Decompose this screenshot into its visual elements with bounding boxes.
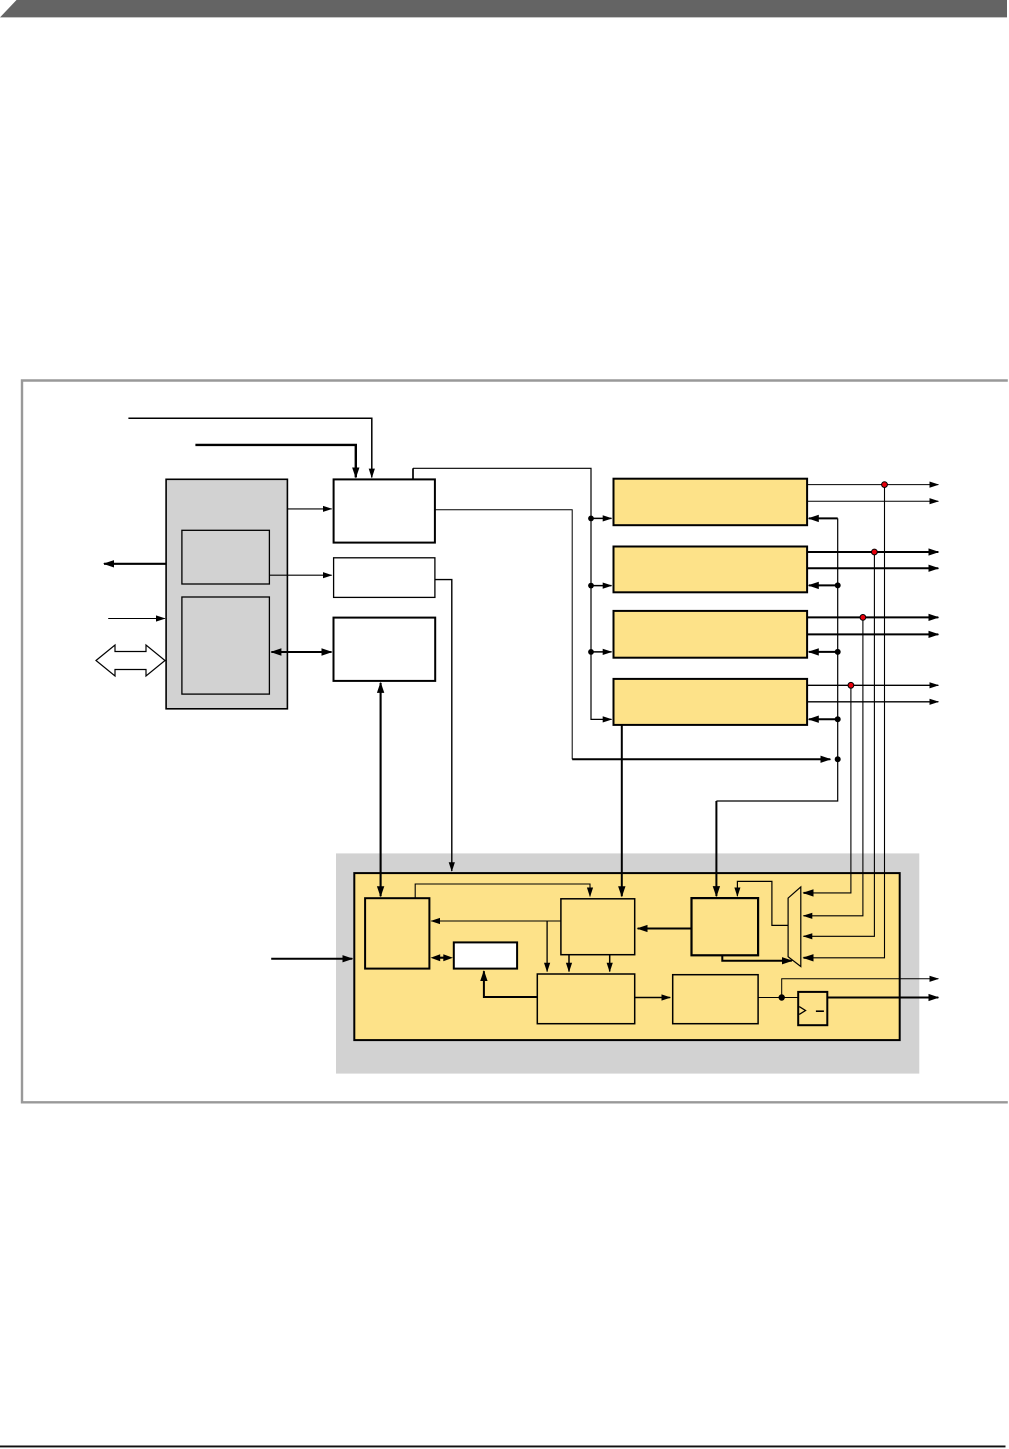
node: module2 pin <box>872 549 878 555</box>
block: toggle flip-flop <box>798 992 827 1025</box>
wire: compare to counter feedback <box>431 920 561 922</box>
junction <box>835 716 841 722</box>
wire: input arrow to SFR block <box>108 618 165 620</box>
arrowhead into mux input 1 <box>804 892 813 894</box>
symbol: flip-flop clock triangle <box>799 1007 805 1015</box>
bus: bidirectional open double arrow <box>96 645 165 676</box>
junction <box>588 516 594 522</box>
wire: module1 pin line down to mux <box>804 485 885 958</box>
wire: timebase bottom to mux select <box>722 955 792 960</box>
wire: channel input into module1 <box>809 517 838 519</box>
wire: ECI input to capture/compare control (top line 1) <box>128 418 371 477</box>
block: reload register (white) <box>454 942 517 968</box>
wire: channel input into module3 <box>809 651 838 653</box>
wire: block A right output down to feed row <box>435 510 572 760</box>
wire: SFR block to block A <box>287 508 331 510</box>
junction <box>835 756 841 762</box>
wire: compare bottom arrow 2 <box>609 955 611 972</box>
region: counter/timer inner (yellow) <box>354 873 899 1040</box>
junction <box>588 649 594 655</box>
symbol: flip-flop dash <box>816 1010 824 1012</box>
wire: compare bottom arrow 1 <box>568 955 570 972</box>
wire: counter to reload (double arrow) <box>431 954 453 961</box>
wire: module2 pin line down to mux <box>804 552 875 936</box>
wire: module4 output 2 <box>807 701 938 703</box>
wire: overflow logic to flip-flop <box>758 997 798 999</box>
arrowhead into mux input 4 <box>804 957 813 959</box>
arrowhead into mux input 2 <box>804 915 813 917</box>
block: prescaler sub-box <box>537 974 634 1024</box>
register: inner box 1 <box>182 530 270 584</box>
block: counter low byte <box>365 898 429 968</box>
node: module3 pin <box>860 615 866 621</box>
wire: module2 output 2 <box>807 567 938 569</box>
register: inner box 2 <box>182 597 270 694</box>
figure frame <box>22 381 1008 1103</box>
wire: module3 output 1 <box>807 616 938 618</box>
wire: mux output to timebase sub-box <box>737 881 788 925</box>
junction <box>835 582 841 588</box>
module: capture/compare 3 (yellow) <box>614 611 808 658</box>
wire: module4 output 1 <box>807 684 938 686</box>
block: SFR bus interface (gray) <box>166 479 287 709</box>
wire: channel input line vertical with branch to counter <box>716 518 837 801</box>
wire: external clock input arrow <box>271 958 352 960</box>
wire: flip-flop output (thick) <box>827 997 938 999</box>
wire: module3 output 2 <box>807 633 938 635</box>
module: capture/compare 1 (yellow) <box>614 479 808 526</box>
header banner <box>0 0 1007 17</box>
wire: branch down to prescaler <box>546 921 548 972</box>
wire: prescaler to overflow logic <box>635 997 671 999</box>
wire: module3 pin line down to mux <box>804 617 863 915</box>
wire: module1 output 1 <box>807 484 938 486</box>
wire: module2 enable arrow <box>591 585 612 587</box>
wire: module4 pin line down to mux <box>804 685 851 893</box>
junction <box>835 649 841 655</box>
junction <box>779 994 785 1000</box>
node: module1 pin <box>882 482 888 488</box>
wire: interrupt output arrow (left) <box>104 563 166 565</box>
wire: branch down into timebase sub-box <box>715 801 717 896</box>
node: module4 pin <box>848 682 854 688</box>
wire: channel input into module2 <box>809 584 838 586</box>
junction <box>588 583 594 589</box>
block: compare sub-box <box>561 899 635 955</box>
wire: clock input to control block (top line 2) <box>195 445 355 478</box>
block: control register C <box>334 618 436 681</box>
block: timebase sub-box <box>692 898 759 955</box>
wire: block C to counter sub-box (vertical double arrow) <box>380 683 382 896</box>
arrowhead into mux input 3 <box>804 935 813 937</box>
wire: module1 enable arrow <box>591 517 612 519</box>
region: counter/timer outer (gray) <box>336 853 919 1073</box>
wire: feed row to channel-input line <box>572 758 830 760</box>
block: overflow logic sub-box <box>673 975 758 1024</box>
wire: inner box 1 to block B <box>269 574 331 576</box>
wire: prescaler to reload register <box>484 971 537 997</box>
wire: module4 bottom to snapshot sub-box <box>621 725 623 896</box>
wire: channel input into module4 <box>809 718 838 720</box>
wire: module3 enable arrow <box>591 651 612 653</box>
wire: counter top loop to compare sub-box <box>415 884 590 898</box>
wire: inner box 2 to block C (double arrow) <box>271 651 331 653</box>
wire: timebase to compare sub-box <box>638 928 692 930</box>
wire: block A top to distribution line <box>413 468 612 719</box>
module: capture/compare 4 (yellow) <box>614 679 808 725</box>
wire: block B to counter region <box>435 580 452 871</box>
footer rule <box>0 1446 1006 1448</box>
block: control register A <box>334 479 435 542</box>
wire: module1 output 2 <box>807 500 938 502</box>
block: control register B <box>334 558 435 598</box>
wire: overflow output (thin) <box>782 979 939 998</box>
wire: module2 output 1 <box>807 551 938 553</box>
module: capture/compare 2 (yellow) <box>614 547 808 593</box>
wire: block A top stub <box>412 468 414 479</box>
mux: clock select <box>788 887 801 967</box>
